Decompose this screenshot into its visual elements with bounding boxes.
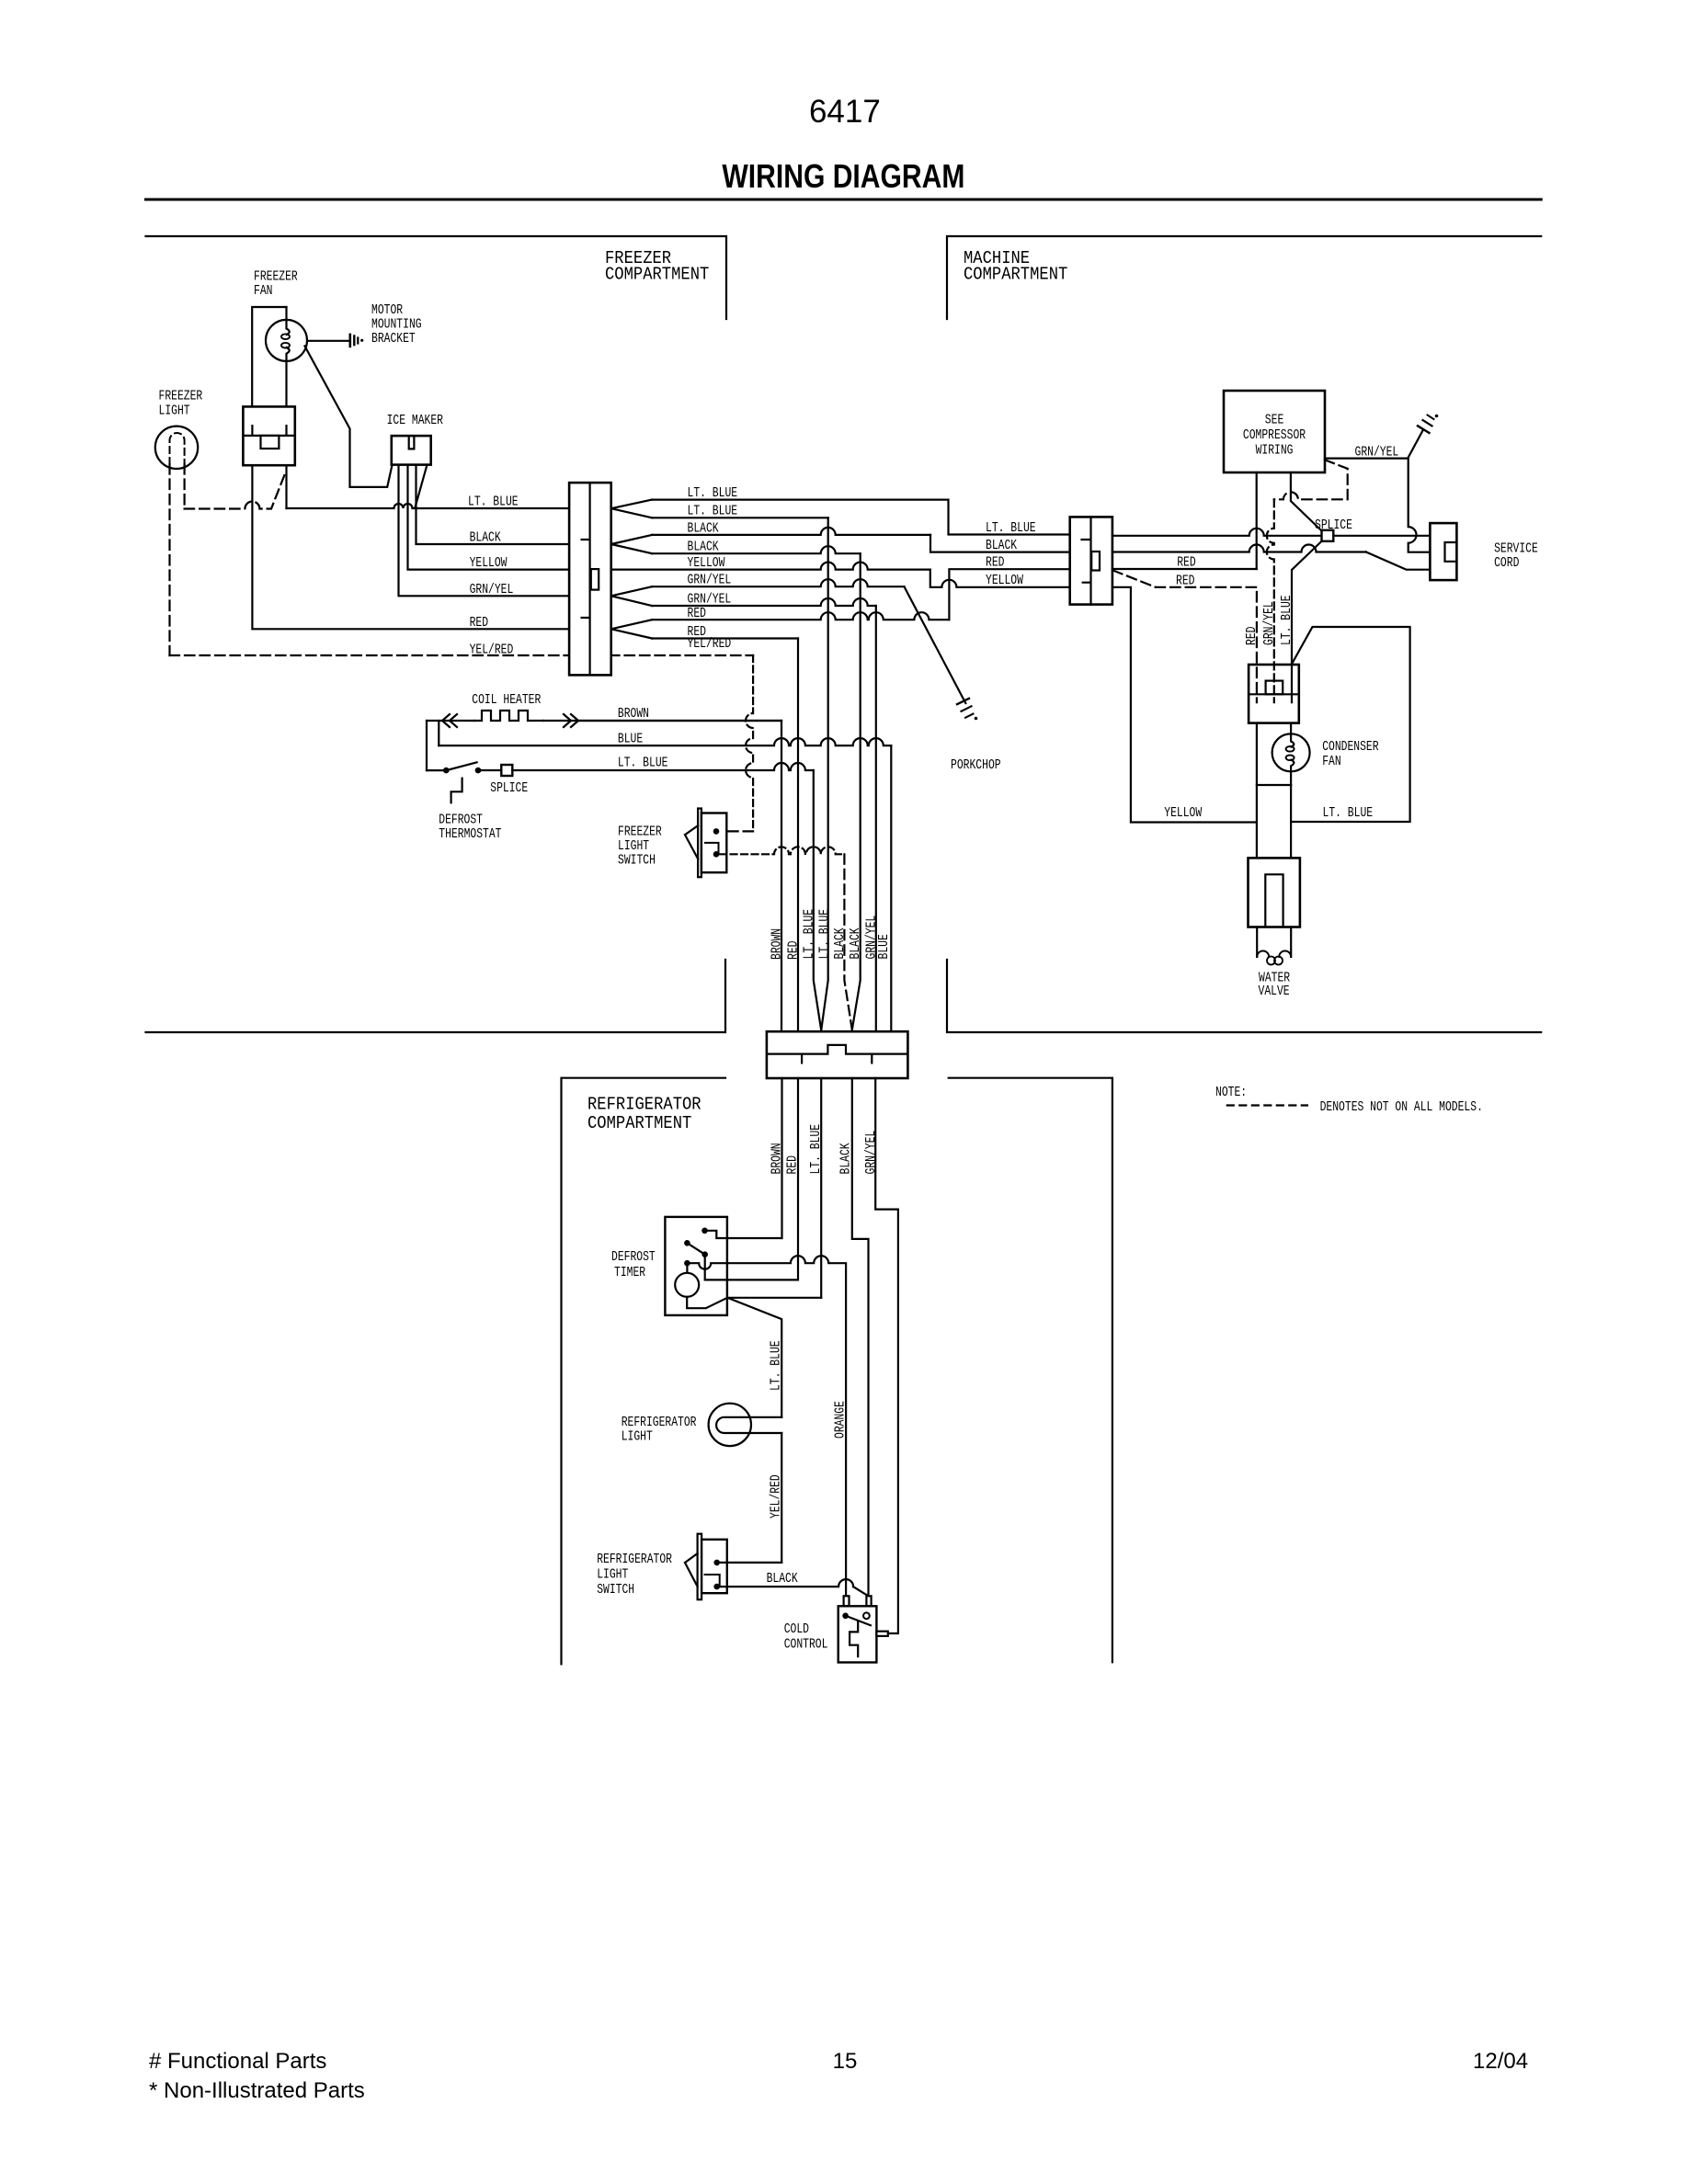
defrost timer contact 1 wire to BROWN <box>706 1231 781 1238</box>
riser BLACK to cold control <box>852 1078 869 1596</box>
wire LT. BLUE 1 to machine connector <box>652 500 1069 535</box>
svg-text:LT. BLUE: LT. BLUE <box>618 756 668 771</box>
relay box left terminal to water valve <box>1256 723 1258 859</box>
chassis ground (antenna) symbol <box>1418 426 1430 433</box>
svg-text:FAN: FAN <box>1322 755 1341 769</box>
splice square (machine) <box>1322 530 1334 541</box>
riser BLACK dashed from switch (tapers) <box>844 854 851 1029</box>
svg-text:REFRIGERATOR: REFRIGERATOR <box>597 1553 672 1567</box>
svg-text:BLACK: BLACK <box>470 531 501 546</box>
condenser fan motor wire through circle with coil <box>1291 723 1294 747</box>
riser LT.BLUE compressor box to splice <box>1291 472 1322 531</box>
svg-text:LT. BLUE: LT. BLUE <box>1323 806 1374 821</box>
wire BLACK machine connector to service cord <box>1112 545 1366 552</box>
wire LT. BLUE 2 riser to refrigerator <box>652 517 828 518</box>
riser GRN/YEL trunk <box>875 606 877 1031</box>
cold control contacts and blade <box>842 1613 849 1620</box>
svg-text:LIGHT: LIGHT <box>618 839 649 854</box>
svg-text:SERVICE: SERVICE <box>1494 542 1538 557</box>
wire YEL/RED dashed from freezer light left leg <box>168 464 170 655</box>
riser LT. BLUE trunk (tapers) <box>821 518 828 1029</box>
defrost timer contact 4 wire to ORANGE riser <box>684 1260 690 1267</box>
wire dashed freezer light to fan motor <box>184 464 186 509</box>
refrigerator light switch plate <box>698 1534 702 1600</box>
svg-text:BLACK: BLACK <box>688 540 719 555</box>
svg-text:BRACKET: BRACKET <box>371 332 416 347</box>
svg-text:PORKCHOP: PORKCHOP <box>951 758 1001 773</box>
wire GRN/YEL 2 riser to refrigerator <box>652 598 876 606</box>
svg-text:RED: RED <box>986 556 1005 571</box>
svg-text:DENOTES NOT ON ALL MODELS.: DENOTES NOT ON ALL MODELS. <box>1320 1100 1483 1115</box>
svg-text:TIMER: TIMER <box>614 1266 645 1280</box>
cold control capillary stub <box>876 1632 887 1636</box>
freezer light switch lever <box>685 825 698 859</box>
coil heater element line with arrows <box>427 720 781 722</box>
defrost thermostat switch <box>443 768 450 774</box>
wire YEL/RED dashed trunk to light switch riser <box>170 654 754 656</box>
svg-text:GRN/YEL: GRN/YEL <box>1355 446 1399 461</box>
svg-text:15: 15 <box>833 2049 858 2074</box>
svg-text:MOTOR: MOTOR <box>371 303 403 318</box>
freezer fan motor circle <box>266 320 307 361</box>
freezer light bulb circle <box>155 427 198 469</box>
svg-text:LT. BLUE: LT. BLUE <box>817 909 832 960</box>
svg-text:RED: RED <box>1245 627 1260 646</box>
cold control box <box>838 1606 877 1662</box>
machine compartment connector <box>1070 517 1112 604</box>
svg-text:BLUE: BLUE <box>618 733 643 747</box>
svg-text:LT. BLUE: LT. BLUE <box>468 495 519 510</box>
wire switch to YEL/RED riser <box>720 1562 782 1564</box>
riser BROWN to defrost timer <box>781 1078 782 1238</box>
svg-text:FREEZER: FREEZER <box>618 825 662 840</box>
freezer fan motor connector block <box>243 406 294 465</box>
wire GRN/YEL dashed compressor to relay box <box>1274 460 1348 499</box>
svg-text:BROWN: BROWN <box>618 707 649 722</box>
svg-text:LIGHT: LIGHT <box>597 1568 628 1583</box>
riser BROWN <box>781 721 782 1031</box>
svg-text:REFRIGERATOR: REFRIGERATOR <box>587 1095 701 1115</box>
connector fan-out chevron LT. BLUE pair <box>611 500 653 518</box>
refrigerator light filament <box>716 1417 781 1433</box>
splice square (defrost) <box>501 765 512 776</box>
defrost timer contact 3 wire to RED <box>705 1255 798 1280</box>
compressor relay connector box <box>1249 665 1299 723</box>
water valve coil <box>1257 951 1269 958</box>
refrigerator compartment connector <box>767 1031 908 1078</box>
svg-text:GRN/YEL: GRN/YEL <box>688 574 732 588</box>
svg-text:LIGHT: LIGHT <box>159 404 190 419</box>
refrigerator light switch body <box>701 1540 727 1593</box>
svg-text:YEL/RED: YEL/RED <box>770 1474 784 1519</box>
water valve leads <box>1256 927 1258 958</box>
svg-text:BLUE: BLUE <box>877 934 892 959</box>
riser RED to defrost timer <box>797 1078 799 1280</box>
wire BROWN heater to riser <box>578 720 781 722</box>
freezer light switch plate <box>698 809 701 878</box>
machine compartment boundary bottom <box>947 960 1541 1032</box>
wire GRN/YEL 1 to porkchop <box>652 579 904 586</box>
svg-text:# Functional Parts: # Functional Parts <box>149 2049 326 2074</box>
svg-text:BLACK: BLACK <box>767 1572 798 1587</box>
svg-text:FREEZER: FREEZER <box>254 270 298 285</box>
wire BLACK 2 riser to refrigerator <box>652 546 861 553</box>
svg-text:COIL HEATER: COIL HEATER <box>472 693 541 708</box>
wire fan to ice maker junction (diagonal) <box>305 347 393 487</box>
svg-text:LT. BLUE: LT. BLUE <box>1280 595 1295 645</box>
cold control bellows zigzag <box>850 1621 858 1657</box>
wire LT. BLUE riser to timer junction <box>727 1297 821 1299</box>
wire fan to motor mounting bracket <box>307 340 348 342</box>
refrigerator light switch lever <box>685 1553 698 1587</box>
wire LT. BLUE splice to relay box riser <box>1292 541 1322 703</box>
svg-text:MOUNTING: MOUNTING <box>371 318 422 333</box>
wire LT. BLUE splice to service cord <box>1333 535 1430 537</box>
connector fan-out chevron RED pair <box>611 620 653 638</box>
svg-text:WIRING: WIRING <box>1256 444 1294 459</box>
cold control left post <box>844 1596 850 1606</box>
svg-text:WIRING DIAGRAM: WIRING DIAGRAM <box>722 157 964 195</box>
svg-text:NOTE:: NOTE: <box>1215 1086 1247 1100</box>
freezer fan housing <box>252 307 286 406</box>
svg-text:BLACK: BLACK <box>849 927 863 959</box>
svg-text:LIGHT: LIGHT <box>622 1429 653 1444</box>
svg-text:GRN/YEL: GRN/YEL <box>470 583 514 597</box>
wire heater to defrost thermostat <box>426 721 428 770</box>
svg-text:CONTROL: CONTROL <box>784 1638 828 1653</box>
svg-text:DEFROST: DEFROST <box>611 1250 656 1265</box>
connector fan-out chevron GRN/YEL pair <box>611 586 653 606</box>
wire thermostat to splice <box>480 769 501 771</box>
defrost thermostat bracket <box>451 779 462 803</box>
porkchop ground lead <box>905 586 966 703</box>
wire RED 1 to machine connector <box>652 612 949 620</box>
refrigerator compartment boundary right <box>949 1078 1112 1663</box>
svg-text:COMPRESSOR: COMPRESSOR <box>1243 428 1306 443</box>
wire RED 2 riser to refrigerator <box>652 637 798 639</box>
water valve body <box>1249 858 1300 927</box>
condenser fan riser to water valve <box>1290 785 1292 858</box>
defrost timer motor common wire <box>687 1297 727 1308</box>
svg-text:RED: RED <box>787 941 802 961</box>
refrigerator compartment boundary left <box>562 1078 726 1665</box>
svg-text:RED: RED <box>470 616 488 631</box>
service cord connector <box>1430 523 1456 580</box>
wire BLUE to riser <box>439 738 891 745</box>
wire RED freezer fan motor to connector <box>252 465 569 629</box>
wire YELLOW machine connector to water valve <box>1112 587 1257 823</box>
porkchop ground symbol <box>957 699 969 704</box>
wire LT. BLUE freezer fan motor to connector <box>285 465 287 508</box>
riser LT. BLUE to defrost timer <box>820 1078 822 1298</box>
defrost timer box <box>665 1217 727 1315</box>
riser BLACK trunk (tapers) <box>852 553 861 1029</box>
freezer light switch body <box>701 813 726 873</box>
svg-text:COMPARTMENT: COMPARTMENT <box>964 265 1067 285</box>
cold control right post <box>866 1596 871 1606</box>
svg-text:SPLICE: SPLICE <box>490 781 528 796</box>
wire junction to refrigerator light <box>727 1298 781 1417</box>
wire YELLOW to machine connector <box>611 563 930 570</box>
defrost timer switch blade <box>684 1240 690 1246</box>
svg-text:SWITCH: SWITCH <box>597 1583 634 1598</box>
wire RED dashed to relay box <box>1113 571 1257 703</box>
freezer light filament (dashed) <box>170 433 185 464</box>
svg-text:FAN: FAN <box>254 284 273 299</box>
riser RED trunk <box>797 639 799 1032</box>
riser GRN/YEL to cold control <box>875 1078 898 1633</box>
freezer compartment boundary bottom <box>146 960 726 1032</box>
riser RED compressor box to RED wire <box>1256 472 1258 569</box>
svg-text:RED: RED <box>786 1155 801 1175</box>
svg-text:VALVE: VALVE <box>1259 984 1290 999</box>
svg-text:YELLOW: YELLOW <box>986 574 1023 588</box>
svg-text:GRN/YEL: GRN/YEL <box>864 1131 879 1175</box>
svg-text:BROWN: BROWN <box>770 1143 785 1174</box>
svg-text:REFRIGERATOR: REFRIGERATOR <box>622 1416 697 1430</box>
riser LT. BLUE from splice (tapers) <box>814 770 821 1030</box>
svg-text:ORANGE: ORANGE <box>834 1401 849 1439</box>
svg-text:LT. BLUE: LT. BLUE <box>803 909 817 960</box>
wire LT. BLUE machine connector to splice <box>1112 529 1322 536</box>
riser BLUE <box>890 745 892 1031</box>
wire BLACK 1 to machine connector <box>652 528 930 535</box>
freezer fan motor wire through circle with coil <box>287 307 290 335</box>
svg-text:YELLOW: YELLOW <box>470 556 508 571</box>
wire GRN/YEL compressor to antenna and service cord <box>1325 459 1430 552</box>
svg-text:LT. BLUE: LT. BLUE <box>770 1340 784 1391</box>
svg-text:SWITCH: SWITCH <box>618 854 656 869</box>
svg-text:COMPARTMENT: COMPARTMENT <box>605 265 709 285</box>
motor mounting bracket ground symbol <box>348 335 351 347</box>
refrigerator light circle <box>709 1404 751 1446</box>
wire BLACK switch to cold control <box>720 1579 854 1587</box>
svg-text:6417: 6417 <box>809 94 881 130</box>
svg-text:COMPARTMENT: COMPARTMENT <box>587 1113 691 1133</box>
wire LT.BLUE loop around relay box to water valve <box>1291 627 1409 822</box>
svg-text:LT. BLUE: LT. BLUE <box>688 505 738 519</box>
svg-text:GRN/YEL: GRN/YEL <box>1262 601 1277 645</box>
svg-text:12/04: 12/04 <box>1473 2049 1528 2074</box>
dashed BLACK wire from switch to riser <box>720 847 844 854</box>
svg-text:YELLOW: YELLOW <box>1164 806 1202 821</box>
freezer compartment boundary top <box>146 236 727 319</box>
dashed YEL/RED riser to freezer light switch <box>746 655 753 831</box>
note dashed sample <box>1227 1104 1307 1106</box>
svg-text:COLD: COLD <box>784 1622 809 1637</box>
svg-text:BLACK: BLACK <box>839 1143 854 1174</box>
ice maker corner lead to LT. BLUE <box>416 465 428 507</box>
title rule <box>146 199 1542 201</box>
compressor wiring box <box>1224 391 1325 472</box>
ice maker prong YELLOW <box>408 465 570 570</box>
defrost timer motor <box>686 1266 688 1273</box>
svg-text:LT. BLUE: LT. BLUE <box>809 1124 824 1175</box>
svg-text:DEFROST: DEFROST <box>439 813 483 828</box>
svg-text:BLACK: BLACK <box>833 927 848 959</box>
svg-text:FREEZER: FREEZER <box>159 390 203 404</box>
riser YEL/RED light to switch <box>781 1433 782 1563</box>
wire LT. BLUE splice to riser <box>512 763 814 770</box>
svg-text:BLACK: BLACK <box>986 539 1017 553</box>
condenser fan circle <box>1272 734 1310 771</box>
machine compartment boundary top <box>947 236 1541 319</box>
svg-text:LT. BLUE: LT. BLUE <box>986 521 1036 536</box>
svg-text:CONDENSER: CONDENSER <box>1322 740 1379 755</box>
freezer compartment connector <box>569 483 611 675</box>
svg-text:SEE: SEE <box>1265 414 1284 428</box>
wire heater to BLUE <box>438 721 439 745</box>
svg-text:BROWN: BROWN <box>770 928 785 960</box>
svg-text:ICE MAKER: ICE MAKER <box>387 414 444 428</box>
ice maker prong BLACK <box>416 465 570 544</box>
condenser fan rung <box>1257 784 1291 786</box>
svg-text:* Non-Illustrated Parts: * Non-Illustrated Parts <box>149 2078 365 2103</box>
ice maker prong GRN/YEL <box>399 465 570 597</box>
wire RED connector to compressor riser <box>1112 568 1257 570</box>
ice maker block <box>392 436 431 465</box>
svg-text:CORD: CORD <box>1494 556 1519 571</box>
svg-text:THERMOSTAT: THERMOSTAT <box>439 827 501 842</box>
connector fan-out chevron BLACK pair <box>611 535 653 553</box>
